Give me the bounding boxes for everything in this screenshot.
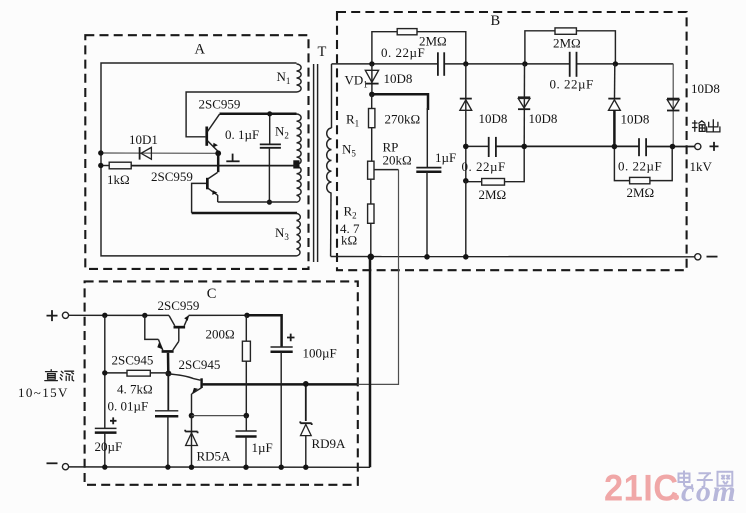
svg-text:1µF: 1µF — [252, 440, 273, 455]
node: bottom rail at 100uF — [279, 465, 284, 470]
svg-text:0. 22µF: 0. 22µF — [462, 159, 506, 174]
svg-text:20µF: 20µF — [95, 439, 123, 454]
transistor Q4 2SC959 (pass) — [158, 298, 200, 341]
diode D3 10D8 (points down) — [518, 64, 557, 146]
svg-text:N3: N3 — [275, 225, 289, 242]
svg-text:2SC945: 2SC945 — [112, 352, 154, 367]
svg-text:VD1: VD1 — [345, 73, 368, 90]
label: shuchu (output) CJK — [693, 120, 720, 132]
svg-text:2SC945: 2SC945 — [179, 357, 221, 372]
node: 200 ohm bottom / 1uF top — [244, 413, 250, 419]
wire: C bottom rail — [69, 466, 371, 468]
svg-text:RD9A: RD9A — [312, 436, 347, 451]
label: zhiliu (DC) CJK — [45, 370, 74, 381]
svg-text:10~15V: 10~15V — [18, 385, 69, 400]
svg-text:10D8: 10D8 — [621, 112, 650, 127]
node: bottom rail at 1uF — [243, 465, 248, 470]
diode D2 10D8 (points up) — [460, 64, 508, 146]
node: bottom rail at 1uF — [424, 254, 430, 260]
svg-text:1µF: 1µF — [435, 150, 456, 165]
diode VD1 10D8 (points down) — [345, 64, 413, 95]
node: top rail / left drop — [102, 313, 107, 428]
transistor Q6 2SC945 (error amp) — [168, 357, 220, 416]
node: bus at VD1 — [369, 61, 374, 66]
resistor 4.7kOhm — [105, 370, 169, 396]
svg-text:2MΩ: 2MΩ — [553, 36, 581, 51]
node: bottom rail at 20uF — [102, 464, 107, 469]
dashed enclosure box A — [85, 35, 308, 269]
capacitor 0.22uF (bus 1) — [381, 45, 444, 76]
svg-text:kΩ: kΩ — [341, 233, 357, 248]
wire: base bias row to N2 tap (thick right of resistor) — [101, 165, 297, 167]
svg-text:270kΩ: 270kΩ — [385, 111, 421, 126]
node: rail at D5 — [670, 144, 676, 150]
svg-text:N5: N5 — [342, 142, 356, 159]
svg-text:10D8: 10D8 — [384, 71, 413, 86]
svg-text:10D8: 10D8 — [691, 81, 720, 96]
resistor 200 Ohm — [206, 315, 251, 415]
svg-text:1kV: 1kV — [690, 159, 713, 174]
capacitor 0.22uF (rail 1) — [462, 137, 506, 174]
capacitor 0.22uF (bus 2) — [550, 52, 594, 92]
svg-text:10D8: 10D8 — [529, 111, 558, 126]
winding N3 — [275, 213, 300, 256]
svg-text:4. 7kΩ: 4. 7kΩ — [117, 381, 153, 396]
svg-text:A: A — [195, 42, 206, 58]
node: collector row / RD9A — [303, 381, 309, 387]
capacitor 100uF — [271, 334, 337, 468]
resistor 2MOhm (below rail, left) — [466, 146, 524, 201]
node: bus at D4 — [613, 61, 618, 66]
svg-text:2SC959: 2SC959 — [199, 97, 241, 112]
transformer T core — [314, 44, 327, 262]
node: rail at D2 — [463, 144, 469, 150]
capacitor 0.1uF — [225, 114, 281, 202]
svg-text:0. 01µF: 0. 01µF — [108, 398, 149, 413]
svg-text:0. 1µF: 0. 1µF — [225, 127, 259, 142]
wire: B ground drop to C rail (thick) — [369, 257, 372, 468]
svg-text:2SC959: 2SC959 — [158, 298, 200, 313]
node: left drop / 4.7k — [102, 370, 107, 375]
terminal: DC input minus — [47, 463, 69, 470]
svg-text:R1: R1 — [346, 111, 359, 128]
svg-text:10D1: 10D1 — [129, 132, 158, 147]
svg-text:20kΩ: 20kΩ — [383, 153, 412, 168]
zener RD9A — [300, 384, 346, 467]
terminal: output + 1kV — [690, 142, 719, 174]
capacitor 20uF — [95, 417, 123, 467]
transistor Q2 2SC959 (lower, section A) — [151, 153, 218, 213]
node: rail at D3 — [521, 144, 527, 150]
svg-text:0. 22µF: 0. 22µF — [618, 158, 662, 173]
terminal: DC input + — [47, 310, 69, 321]
dashed enclosure box B — [337, 12, 687, 270]
wire: N1 bottom lead to Q1 base — [186, 92, 296, 137]
zener RD5A — [185, 416, 231, 468]
node: bottom rail at RD5A — [189, 465, 194, 470]
svg-text:21IC: 21IC — [604, 467, 679, 508]
wire: top HV bus — [332, 63, 674, 65]
svg-text:N1: N1 — [277, 69, 291, 86]
potentiometer RP 20k — [368, 140, 412, 180]
wire: Q2 emitter to N2 bottom — [218, 201, 297, 203]
svg-text:B: B — [491, 13, 501, 29]
node: Q1 emitter junction — [215, 150, 221, 156]
svg-text:T: T — [318, 44, 327, 60]
node: bottom rail at R2 — [368, 253, 375, 260]
diode D4 10D8 (points up) — [608, 64, 649, 147]
node: VD1 cathode junction — [369, 92, 375, 98]
node: bottom rail at 2M drop — [463, 254, 469, 260]
chassis tick symbol — [226, 154, 239, 162]
node: 2M loop junction to ground drop — [463, 178, 469, 257]
svg-text:10D8: 10D8 — [479, 111, 508, 126]
node: bus at D3 — [522, 61, 527, 66]
wire: C top rail thick part to 100uF — [247, 315, 282, 346]
svg-text:R2: R2 — [344, 204, 357, 221]
svg-text:200Ω: 200Ω — [206, 326, 235, 341]
svg-text:2MΩ: 2MΩ — [627, 185, 655, 200]
wire: output rail (middle) — [466, 145, 695, 147]
svg-text:100µF: 100µF — [303, 346, 337, 361]
svg-text:RD5A: RD5A — [197, 448, 232, 463]
resistor R1 270k — [346, 94, 420, 161]
winding N2 with center tap — [275, 114, 301, 202]
capacitor 1uF (section B) — [416, 108, 456, 257]
svg-text:2MΩ: 2MΩ — [479, 187, 507, 202]
node: rail at D4 — [612, 144, 618, 150]
winding N1 — [277, 64, 302, 92]
wire: RP wiper feedback drop — [358, 170, 399, 385]
resistor 2MOhm (below rail, right) — [614, 147, 672, 200]
diode 10D1 — [129, 132, 158, 160]
node: left rail / 10D1 wire — [98, 150, 103, 155]
node: 0.1uF top junction — [267, 111, 272, 116]
wire: RD5A node to 1uF node — [192, 415, 247, 417]
wire: Q6 collector row (thick) to RP drop — [203, 383, 358, 386]
label: 10-15V — [18, 385, 69, 400]
node: bottom rail at RD9A — [303, 465, 308, 470]
svg-text:0. 22µF: 0. 22µF — [550, 77, 594, 92]
wire: bottom return rail — [331, 256, 695, 258]
wire: A inner-loop left rail and top/bottom edges — [101, 63, 297, 256]
svg-text:N2: N2 — [275, 124, 289, 141]
winding N5 (secondary) — [327, 64, 357, 256]
node: top rail / Q5 branch — [142, 313, 147, 318]
wire: 10D1 row — [101, 152, 218, 154]
resistor R2 4.7k — [340, 179, 374, 257]
wire: C top rail — [69, 314, 248, 316]
capacitor 1uF (section C) — [236, 416, 273, 468]
wire: Q2 base wire to N3 top (thick) — [192, 212, 297, 215]
transistor Q5 2SC945 (driver) — [112, 315, 179, 373]
resistor 2MOhm (top loop 1) — [372, 29, 466, 64]
node: emitter / RD5A junction — [189, 413, 195, 419]
diode D5 10D8 (points down) — [667, 64, 720, 147]
transistor Q1 2SC959 (upper, section A) — [199, 97, 241, 152]
wire: VD1 cathode to 1uF (thick) — [372, 94, 428, 110]
node: left rail / 1k wire — [98, 163, 103, 168]
terminal: output minus — [695, 254, 718, 260]
resistor 2MOhm (top loop 2) — [525, 28, 616, 64]
capacitor 0.01uF — [108, 374, 179, 468]
svg-text:C: C — [207, 286, 217, 302]
node: 0.1uF bottom junction — [267, 200, 272, 205]
node: bus at D2 — [463, 61, 468, 66]
wire: Q1 collector to N2 top (thick) — [220, 113, 297, 116]
svg-text:1kΩ: 1kΩ — [107, 172, 130, 187]
dashed enclosure box C — [85, 281, 358, 484]
node: divider/base junction — [165, 371, 171, 377]
svg-text:0. 22µF: 0. 22µF — [381, 45, 425, 60]
resistor 1kOhm — [107, 162, 131, 187]
node: bottom rail at 0.01uF — [165, 464, 170, 469]
capacitor 0.22uF (rail 2) — [618, 138, 662, 173]
svg-text:2SC959: 2SC959 — [151, 169, 193, 184]
node: top rail / 200 ohm — [244, 313, 249, 318]
